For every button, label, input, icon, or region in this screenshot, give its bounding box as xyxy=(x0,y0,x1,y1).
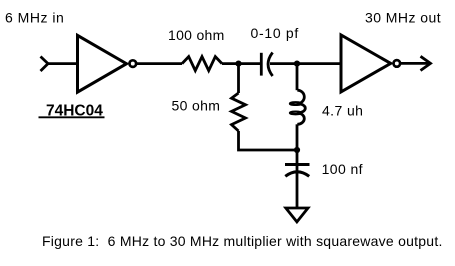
svg-text:50 ohm: 50 ohm xyxy=(172,98,221,114)
node C junction dot xyxy=(294,147,300,153)
wire node B down to L1 xyxy=(296,64,299,91)
capacitor C2 100 nf top plate xyxy=(285,163,310,166)
capacitor C1 0-10 pf left plate xyxy=(260,53,263,76)
wire bubble to output xyxy=(401,62,430,65)
capacitor C1 right curved plate xyxy=(268,53,273,77)
wire bubble to R1 xyxy=(137,62,183,65)
inductor L1 4.7 uh xyxy=(297,90,304,103)
input terminal arrow xyxy=(41,57,49,72)
svg-text:100 ohm: 100 ohm xyxy=(168,27,225,43)
wire L1 to node C xyxy=(296,124,299,150)
capacitor C2 bottom curved plate xyxy=(285,172,309,177)
inverter U1 output bubble xyxy=(130,60,137,67)
svg-text:100 nf: 100 nf xyxy=(322,161,363,177)
resistor R2 50 ohm xyxy=(232,93,246,131)
node B junction dot xyxy=(294,61,300,67)
resistor R1 100 ohm xyxy=(182,57,222,71)
wire R1 to C1 xyxy=(222,62,261,65)
svg-text:0-10 pf: 0-10 pf xyxy=(251,25,300,41)
svg-text:4.7 uh: 4.7 uh xyxy=(322,103,363,119)
inverter U2 output bubble xyxy=(394,60,401,67)
svg-text:Figure 1: 6 MHz to 30 MHz mul: Figure 1: 6 MHz to 30 MHz multiplier wit… xyxy=(42,233,443,249)
ground symbol xyxy=(286,208,308,222)
output terminal arrow xyxy=(421,56,431,70)
wire input to inverter xyxy=(48,62,78,65)
svg-text:30 MHz out: 30 MHz out xyxy=(365,10,441,26)
op-amp U1 inverter triangle 74HC04 xyxy=(78,35,127,92)
wire R2 bottom corner to node C xyxy=(239,131,298,150)
node A junction dot xyxy=(235,61,241,67)
op-amp U2 inverter triangle xyxy=(341,35,391,92)
wire node A down to R2 xyxy=(237,64,240,93)
wire node C to ground through C2 xyxy=(296,150,299,208)
wire C1 to inverter U2 xyxy=(270,62,341,65)
svg-text:6 MHz in: 6 MHz in xyxy=(5,10,64,26)
